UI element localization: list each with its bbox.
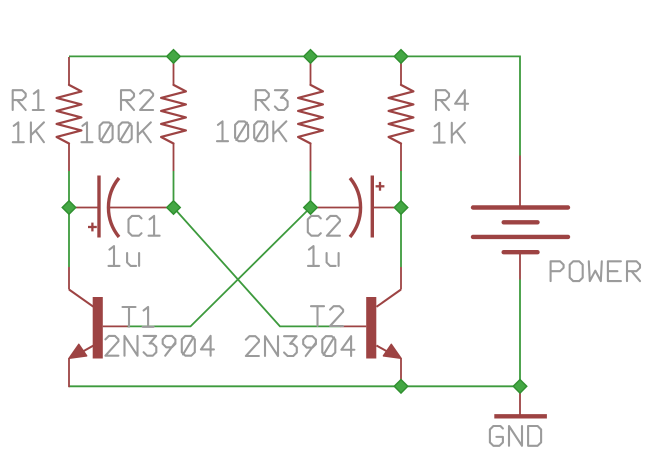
wire top rail V+ <box>69 55 520 57</box>
wire battery bottom to bottom rail <box>519 280 521 387</box>
wire T1 base cross-coupling to node C <box>128 208 311 327</box>
junction top rail / R4 <box>394 50 408 64</box>
label GND <box>490 426 541 446</box>
junction bottom rail / battery / GND <box>513 380 527 394</box>
label C1 <box>129 216 160 236</box>
transistor T1 <box>69 267 128 387</box>
wire R4 bottom to node D <box>400 171 402 208</box>
resistor R2 <box>161 57 186 171</box>
wire node A down to T1 collector <box>68 208 70 268</box>
battery POWER <box>473 156 568 280</box>
resistor R1 <box>57 57 82 171</box>
label T2 <box>311 306 343 326</box>
junction node D (R4/C2/T2-C) <box>394 201 408 215</box>
junction node A (R1/C1/T1-C) <box>62 201 76 215</box>
value 1K (R4) <box>434 123 465 143</box>
label C2 <box>308 216 340 236</box>
wire R3 bottom to node C <box>310 171 312 208</box>
value 1u (C1) <box>109 246 140 266</box>
wire bottom rail GND <box>69 385 520 387</box>
label R3 <box>256 90 288 110</box>
junction top rail / R3 <box>304 50 318 64</box>
value 100K (R2) <box>82 122 151 142</box>
ground GND <box>494 388 547 416</box>
resistor R4 <box>389 57 414 171</box>
wire node D down to T2 collector <box>400 208 402 268</box>
value 2N3904 (T2) <box>246 336 355 356</box>
junction top rail / R2 <box>167 50 181 64</box>
label R2 <box>121 90 153 110</box>
wire T2 base cross-coupling to node B <box>174 208 341 327</box>
value 100K (R3) <box>217 121 286 141</box>
junction node B (R2/C1/T2-B) <box>167 201 181 215</box>
label T1 <box>123 307 154 327</box>
resistor R3 <box>298 57 323 171</box>
label R1 <box>13 90 44 110</box>
value 1K (R1) <box>13 122 44 142</box>
wire R2 bottom to node B <box>173 171 175 208</box>
value 1u (C2) <box>308 246 339 266</box>
capacitor C2 <box>311 176 402 238</box>
junction node C (R3/C2/T1-B) <box>304 201 318 215</box>
wire top rail down to battery <box>519 56 521 156</box>
value 2N3904 (T1) <box>105 336 213 356</box>
wire R1 bottom to node A <box>68 171 70 208</box>
label POWER <box>551 261 640 281</box>
junction bottom rail / T2 emitter <box>394 380 408 394</box>
transistor T2 <box>340 267 401 386</box>
capacitor C1 <box>69 176 174 238</box>
label R4 <box>436 90 468 110</box>
